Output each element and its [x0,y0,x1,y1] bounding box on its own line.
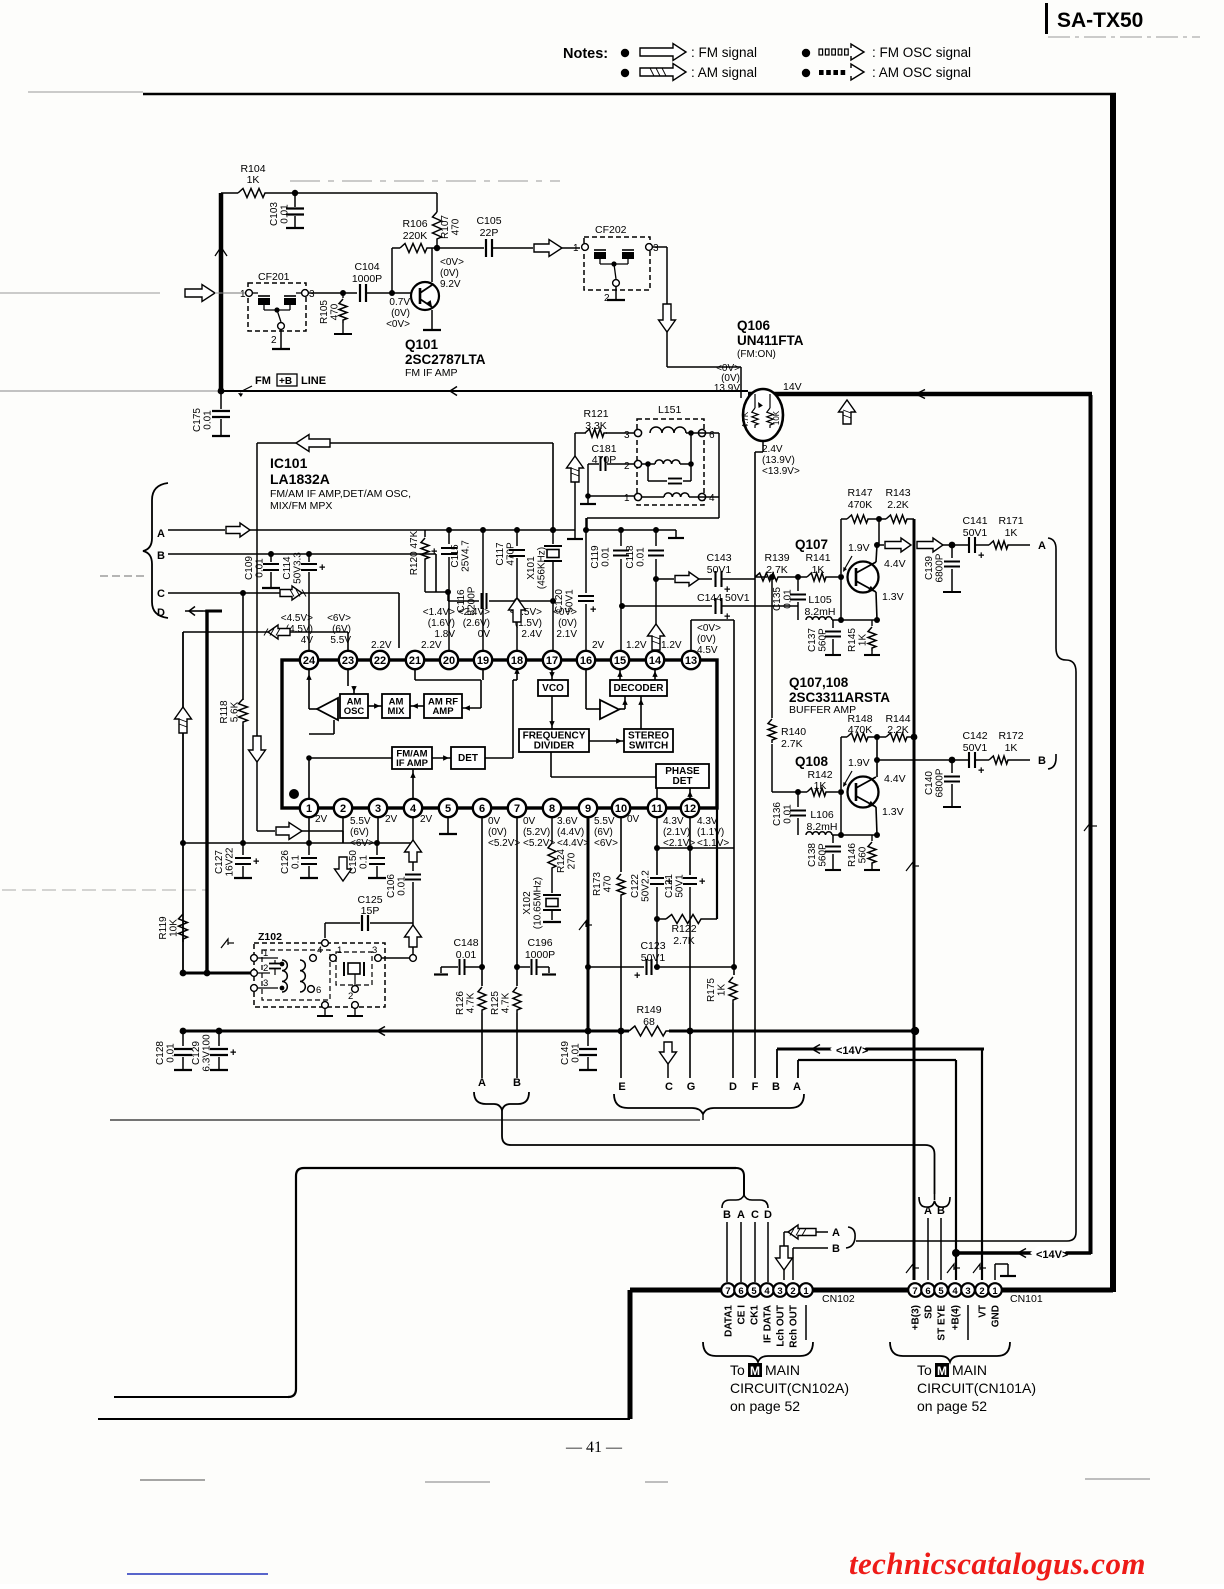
svg-text:GND: GND [991,1305,1002,1327]
svg-text:2: 2 [340,803,346,815]
svg-text:R172: R172 [998,730,1023,742]
wire pin16 to triangle [585,669,587,709]
wire 14V to CN101 row [955,1251,1091,1255]
svg-text:8.2mH: 8.2mH [805,606,836,618]
mark on 14V bus [1084,822,1091,831]
svg-text:6: 6 [709,430,715,441]
svg-text:C196: C196 [527,937,552,949]
wire triangle to DECODER [619,708,625,710]
svg-text:R145: R145 [847,628,858,652]
svg-text:1K: 1K [1005,742,1018,754]
wire AM OSC to AM MIX [368,705,382,707]
ground CN101 pin1 [994,1264,996,1280]
svg-text:C128: C128 [155,1041,166,1065]
brace BACD CN102 [722,1195,768,1208]
wire DET to pin18 [485,757,513,759]
svg-text:19: 19 [477,655,489,667]
svg-text:4.7K: 4.7K [501,992,512,1013]
wire R121 column [574,433,576,539]
crystal X101 [552,530,554,544]
wire 14V drop to pin4 [955,1253,957,1280]
svg-text:5.5V: 5.5V [350,816,371,827]
amp triangle decoder input [600,700,619,719]
mixer Z102 box [254,943,385,1007]
wire right main bus vertical [1110,93,1116,1292]
legend FM OSC arrow [819,49,823,55]
wire A line to CN102 [856,1232,1076,1241]
svg-text:50V1: 50V1 [565,589,576,613]
block FM/AM IF AMP [392,747,432,769]
node junction R104-C103 [292,190,298,196]
svg-text:(1.6V): (1.6V) [428,618,455,629]
svg-text:4.7K: 4.7K [466,992,477,1013]
signal arrow into CF201 [185,285,215,302]
svg-text:3: 3 [965,1286,970,1297]
legend bullet AM OSC [802,69,810,77]
filter CF201 box [248,283,306,331]
svg-text:16V22: 16V22 [225,847,236,876]
svg-text:4: 4 [952,1286,958,1297]
svg-text:(2.6V): (2.6V) [463,618,490,629]
svg-text:50V1: 50V1 [641,952,666,964]
wire CF202 to Q106 [666,332,668,367]
svg-text:10: 10 [615,803,627,815]
svg-text:50V1: 50V1 [963,527,988,539]
svg-text:+: + [724,611,730,623]
svg-text:6: 6 [925,1286,930,1297]
svg-text:VCO: VCO [542,683,564,694]
svg-text:3: 3 [375,803,381,815]
svg-text:20: 20 [443,655,455,667]
svg-text:C114: C114 [282,556,293,580]
block AM OSC [340,694,368,718]
svg-text:DATA1: DATA1 [724,1305,735,1337]
wire AM RF AMP to AM MIX [410,705,424,707]
svg-text:5.6K: 5.6K [230,701,241,722]
svg-text:R146: R146 [847,843,858,867]
svg-text:5.5V: 5.5V [594,816,615,827]
svg-text:D: D [157,607,165,619]
arrow hatched row 632 [268,625,290,639]
svg-text:8: 8 [549,803,555,815]
svg-text:+B(4): +B(4) [951,1305,962,1330]
svg-text:C109: C109 [244,556,255,580]
svg-text:DET: DET [458,753,478,764]
node B output [1011,759,1030,761]
wire R143 to supply column [910,518,914,520]
svg-text:MAIN: MAIN [952,1362,987,1378]
svg-text:2SC3311ARSTA: 2SC3311ARSTA [789,690,890,705]
mixer Z102 transformer [262,950,330,1000]
svg-text:0.01: 0.01 [601,547,612,567]
svg-text:Q107: Q107 [795,537,828,552]
capacitor C121 [689,817,691,875]
svg-text:4.3V: 4.3V [697,816,718,827]
svg-text:X102: X102 [522,891,533,915]
node junction x183 y973 [180,970,187,977]
svg-text:1: 1 [337,945,342,956]
wire L151 loop right [698,432,719,434]
capacitor C150 [376,843,378,855]
wire pin20 riser [448,592,450,650]
wire AM MIX area drop [333,720,335,734]
svg-text:IF AMP: IF AMP [396,758,429,769]
capacitor C181 [588,463,599,465]
capacitor C135 [797,577,799,591]
wire STEREO SWITCH to DECODER [640,696,642,729]
svg-text:50V3.3: 50V3.3 [293,552,304,584]
svg-text:16: 16 [580,655,592,667]
svg-text:560: 560 [858,846,869,863]
svg-text:R140: R140 [781,726,806,738]
svg-text:R122: R122 [671,923,696,935]
svg-text:2.7K: 2.7K [781,738,803,750]
resistor R142 [807,788,829,796]
arrow down hollow x257 [256,443,258,736]
arrowhead on 14V top line [916,390,925,399]
svg-text:MIX/FM MPX: MIX/FM MPX [270,500,332,512]
bar end R121 column [567,538,583,540]
svg-text:(4.4V): (4.4V) [557,827,584,838]
wire bottom big route [114,1396,288,1398]
svg-text:4: 4 [764,1286,770,1297]
svg-text:0.01: 0.01 [166,1043,177,1063]
svg-text:4.4V: 4.4V [884,558,906,570]
wire D bus vertical thick [205,611,208,973]
IC101 pins bottom row 1-12 [300,799,318,817]
svg-text:: AM signal: : AM signal [691,65,757,80]
svg-text:+: + [978,550,984,562]
svg-text:B: B [157,550,165,562]
brace B close [845,1247,847,1249]
wire 14V net L1 [777,1048,984,1051]
inductor L105 [806,617,832,620]
svg-text:560P: 560P [818,628,829,652]
svg-text:0V: 0V [627,814,640,825]
resistor R171 [989,541,1011,549]
svg-text:: FM signal: : FM signal [691,45,757,60]
svg-text:(0V): (0V) [391,308,410,319]
brace ABCD left [143,483,168,618]
svg-text:1.8V: 1.8V [434,629,455,640]
svg-text:1: 1 [803,1286,809,1297]
wire L2 right drop [955,1060,957,1253]
svg-text:<0V>: <0V> [440,257,464,268]
svg-text:6: 6 [738,1286,743,1297]
svg-text:560P: 560P [818,843,829,867]
svg-text:(2.1V): (2.1V) [663,827,690,838]
svg-text:2.1V: 2.1V [556,629,577,640]
signal arrow to CF202 [534,240,562,257]
svg-text:<14V>: <14V> [836,1045,868,1057]
arrow up hatched on left column [175,707,192,733]
svg-text:470P: 470P [506,542,517,566]
svg-text:A: A [157,528,165,540]
svg-text:C: C [751,1209,759,1221]
svg-text:0.01: 0.01 [255,558,266,578]
block PHASE DET [656,764,709,788]
wire Q108 emitter [876,807,877,835]
svg-text:1K: 1K [858,634,869,647]
svg-text:<0V>: <0V> [697,623,721,634]
svg-text:CIRCUIT(CN102A): CIRCUIT(CN102A) [730,1380,849,1396]
svg-text:technicscatalogus.com: technicscatalogus.com [849,1546,1146,1581]
connector CN102 [721,1283,735,1297]
svg-text:15: 15 [614,655,626,667]
svg-text:C: C [157,588,165,600]
svg-text:+B(3): +B(3) [911,1305,922,1330]
svg-text:4.7K: 4.7K [741,411,750,428]
wire Q106 emitter down to F column [762,441,764,452]
capacitor C143 [699,578,712,580]
block AM MIX [382,694,410,718]
capacitor C196 [517,966,530,968]
svg-text:3: 3 [263,978,268,989]
resistor R122 [657,918,666,920]
svg-text:MAIN: MAIN [765,1362,800,1378]
wire B row CN102 [793,1247,828,1249]
svg-text:2: 2 [604,293,610,304]
ground CF201 pin2 [280,329,282,349]
svg-text:ST EYE: ST EYE [937,1305,948,1341]
svg-text:6: 6 [316,985,321,996]
svg-text:DIVIDER: DIVIDER [534,741,575,752]
svg-text:— 41 —: — 41 — [565,1439,623,1456]
svg-text:SA-TX50: SA-TX50 [1057,9,1143,32]
svg-text:R126: R126 [455,991,466,1015]
svg-text:Q101: Q101 [405,337,439,352]
resistor R126 [481,817,483,986]
wire FREQUENCY DIVIDER to STEREO SWITCH [589,740,624,742]
mixer Z102 pins [251,955,258,962]
wire A output down [1055,553,1057,648]
resistor R148 [841,736,847,738]
svg-text:18: 18 [511,655,523,667]
svg-text:X101: X101 [526,556,537,580]
resistor R139 [755,573,781,581]
svg-text:50V1: 50V1 [963,742,988,754]
capacitor C140 [951,760,953,773]
svg-text:1K: 1K [814,780,827,792]
wire R106 feedback [391,248,393,293]
svg-text:CN102: CN102 [822,1293,855,1305]
inductor L151 pins [634,429,641,436]
wire Q107 collector [876,545,877,562]
svg-text:5: 5 [938,1286,944,1297]
wire pin1 down [308,817,310,843]
svg-text:14V: 14V [783,381,802,393]
mixer Z102 resonator [336,952,372,985]
wire R104 top rail [221,192,238,194]
wire CF202 output [652,246,667,248]
svg-text:FM/AM IF AMP,DET/AM OSC,: FM/AM IF AMP,DET/AM OSC, [270,488,411,500]
svg-text:0.01: 0.01 [783,804,794,824]
svg-text:14: 14 [649,655,662,667]
wire Q107 base column [840,577,842,620]
svg-text:M: M [937,1364,947,1378]
resistor R173 [620,817,622,872]
svg-text:1: 1 [573,243,579,254]
brace AB to CN102 [846,1227,855,1248]
node Q108 base [829,791,838,793]
wire top border [143,93,1116,95]
wire Q108 base column [840,792,842,835]
svg-text:1000P: 1000P [525,949,555,961]
wire x257 to pin area arrow [257,830,275,832]
svg-text:1K: 1K [247,174,260,186]
wire bus to left from brace [110,1119,700,1121]
ground pin5 [447,817,449,834]
capacitor C117 [516,530,518,546]
arrowhead on FM B line [450,387,457,396]
wire C181 to L151 pin1 [587,464,589,496]
svg-text:<4.4V>: <4.4V> [557,838,589,849]
svg-text:(0V): (0V) [558,618,577,629]
inductor L151 coils [650,427,686,433]
IC U101 outline [282,660,717,808]
node junctions on main bus [180,1028,187,1035]
arrow up hollow above pin18 [509,598,526,622]
svg-text:0V: 0V [488,816,501,827]
svg-text:<1.4V>: <1.4V> [423,607,455,618]
wire net L2 [798,1059,956,1061]
resistor R118 [242,593,244,700]
svg-text:DET: DET [673,776,693,787]
svg-text:R105: R105 [319,300,330,324]
legend bullet FM [621,49,629,57]
node junction R106-R107 [430,247,484,249]
transistor Q106 digital [743,389,783,441]
svg-text:4: 4 [410,803,417,815]
wire pin2 down [342,817,344,843]
svg-text:LA1832A: LA1832A [270,471,330,487]
svg-text:6800P: 6800P [935,768,946,797]
svg-text:A: A [1038,540,1046,552]
svg-text:C149: C149 [560,1041,571,1065]
wire top return to IC [257,442,553,444]
svg-text:270: 270 [567,852,578,869]
resistor R143 [876,516,882,522]
svg-text:C141: C141 [962,515,987,527]
svg-text:12: 12 [684,803,696,815]
transistor Q107 [848,562,879,593]
blue underline bottom left [127,1573,268,1575]
capacitor C122 [656,817,658,875]
svg-text:4.5V: 4.5V [697,645,718,656]
svg-text:F: F [752,1081,759,1093]
page artifact dashes bottom [140,1479,205,1481]
svg-text:0.1: 0.1 [291,855,302,869]
capacitor C139 [951,545,953,558]
wire C143 to R139 [722,578,755,580]
resistor R107 [436,193,438,212]
svg-text:B: B [723,1209,731,1221]
wire brace to route [934,1194,936,1200]
svg-text:CE I: CE I [737,1305,748,1325]
svg-text:1: 1 [624,493,630,504]
svg-text:R143: R143 [885,487,910,499]
svg-text:D: D [764,1209,772,1221]
svg-text:C137: C137 [807,628,818,652]
brace under ECGDFBA [614,1094,804,1114]
capacitor C141 [968,537,970,553]
svg-text:13.9V: 13.9V [714,383,740,394]
svg-text:(5.2V): (5.2V) [523,827,550,838]
svg-text:C139: C139 [924,556,935,580]
resistor R172 [989,756,1011,764]
svg-text:C135: C135 [772,587,783,611]
svg-text:C136: C136 [772,802,783,826]
svg-text:2V: 2V [592,640,605,651]
block AM RF AMP [424,694,462,718]
svg-text:R171: R171 [998,515,1023,527]
svg-text:<5.2V>: <5.2V> [488,838,520,849]
svg-text:C175: C175 [192,408,203,432]
svg-text:0.01: 0.01 [636,547,647,567]
ground under C181 wire [587,496,589,504]
wire pin12 column to node G [689,1031,691,1078]
svg-text:0.01: 0.01 [280,204,291,224]
node R139 R141 [781,576,807,578]
svg-text:23: 23 [342,655,354,667]
svg-text:(10.65MHz): (10.65MHz) [533,877,544,929]
svg-text:R121: R121 [583,408,608,420]
wire Q107 emitter [876,592,877,620]
svg-text:L151: L151 [658,404,682,416]
svg-text:DECODER: DECODER [613,683,664,694]
svg-text:SD: SD [924,1305,935,1319]
svg-text:1.9V: 1.9V [848,542,870,554]
wire Q101 collector [431,248,433,282]
svg-text:4.4V: 4.4V [884,773,906,785]
crystal X102 [551,817,553,843]
resistor R140 [771,577,773,718]
svg-text:C106: C106 [386,874,397,898]
svg-text:D: D [729,1081,737,1093]
svg-text:4.3V: 4.3V [663,816,684,827]
wire DECODER to pin14 [654,669,656,680]
svg-text:C140: C140 [924,771,935,795]
svg-text:1K: 1K [812,564,825,576]
svg-text:17: 17 [546,655,558,667]
signal arrow into C143 [675,572,699,586]
capacitor C148 [441,966,458,968]
svg-text:13: 13 [685,655,697,667]
svg-text:22P: 22P [480,227,499,239]
svg-text:+: + [431,546,437,558]
svg-text:<6V>: <6V> [327,613,351,624]
wire connector row left drop [628,1290,633,1419]
capacitor C119 [620,530,622,546]
svg-text:BUFFER AMP: BUFFER AMP [789,704,856,716]
capacitor C115 [448,530,450,544]
capacitor C138 [832,835,834,843]
svg-text:1000P: 1000P [352,273,382,285]
svg-text:470K: 470K [848,499,873,511]
svg-text:2: 2 [271,335,277,346]
svg-text:9: 9 [585,803,591,815]
svg-text:UN411FTA: UN411FTA [737,333,804,348]
arrow right hollow below pin1 [276,823,302,840]
wire pin10 column to node E [620,1031,622,1078]
svg-text:1.2V: 1.2V [626,640,647,651]
svg-text:+: + [634,970,640,982]
mixer Z102 grounds [324,1008,326,1016]
arrow up from Z102 riser [412,923,414,958]
wire pin11 column to C123 row [656,919,658,967]
svg-text:2.4V: 2.4V [762,444,783,455]
rail R147 R143 [862,518,864,520]
